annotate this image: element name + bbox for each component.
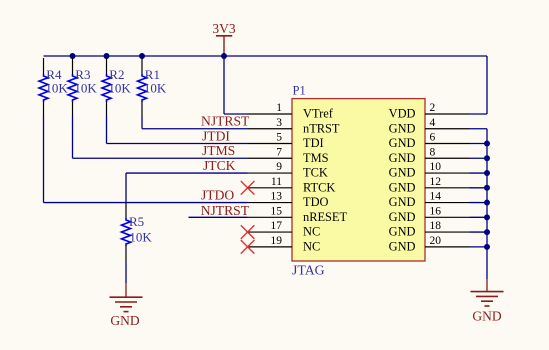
- wire pin4 to GND bus: [470, 128, 488, 130]
- pin 14 (GND): [389, 191, 470, 210]
- comment JTAG: [292, 262, 325, 277]
- svg-text:10K: 10K: [108, 81, 131, 96]
- wire NJTRST stub (pin15): [189, 216, 248, 218]
- resistor R3: [68, 58, 97, 116]
- pin 12 (GND): [389, 176, 470, 195]
- svg-text:nTRST: nTRST: [303, 121, 340, 135]
- wire pin18 to GND bus: [470, 231, 488, 233]
- svg-text:6: 6: [430, 132, 436, 144]
- svg-text:18: 18: [430, 220, 442, 232]
- wire pin6 to GND bus: [470, 143, 488, 145]
- svg-text:20: 20: [430, 235, 442, 247]
- node 3V3-rail junction: [221, 53, 227, 59]
- resistor R5: [122, 204, 153, 262]
- node GND bus pin14: [484, 200, 490, 206]
- svg-text:nRESET: nRESET: [303, 210, 347, 224]
- pin 7 (TMS): [248, 146, 329, 165]
- svg-text:10K: 10K: [129, 229, 152, 244]
- svg-text:JTCK: JTCK: [203, 158, 236, 173]
- svg-text:15: 15: [271, 205, 283, 217]
- svg-text:GND: GND: [389, 195, 416, 209]
- no-ERC marker pin 11: [241, 181, 255, 195]
- net label JTCK (pin9): [203, 158, 236, 173]
- pin 6 (GND): [389, 132, 470, 151]
- pin 19 (NC): [248, 235, 321, 254]
- pin 11 (RTCK): [248, 176, 336, 195]
- pin 4 (GND): [389, 117, 470, 136]
- net label JTMS (pin7): [202, 143, 235, 158]
- svg-text:10K: 10K: [74, 81, 97, 96]
- wire R2 net: [107, 116, 248, 144]
- node R1-rail junction: [139, 53, 145, 59]
- pin 10 (GND): [389, 161, 470, 180]
- svg-text:R5: R5: [129, 214, 144, 229]
- svg-text:19: 19: [271, 235, 283, 247]
- node GND bus pin8: [484, 155, 490, 161]
- svg-text:3V3: 3V3: [212, 21, 235, 36]
- svg-text:17: 17: [271, 220, 283, 232]
- svg-text:GND: GND: [389, 166, 416, 180]
- svg-text:16: 16: [430, 205, 442, 217]
- svg-text:9: 9: [276, 161, 282, 173]
- node R2-rail junction: [104, 53, 110, 59]
- svg-text:14: 14: [430, 191, 442, 203]
- pin 5 (TDI): [248, 132, 324, 151]
- pin 1 (VTref): [248, 102, 334, 121]
- wire pin20 to GND bus: [470, 246, 488, 248]
- node GND bus pin16: [484, 214, 490, 220]
- node GND bus pin10: [484, 170, 490, 176]
- svg-text:JTDO: JTDO: [201, 187, 234, 202]
- pin 13 (TDO): [248, 191, 329, 210]
- wire pin12 to GND bus: [470, 187, 488, 189]
- pin 20 (GND): [389, 235, 470, 254]
- svg-text:GND: GND: [389, 210, 416, 224]
- svg-text:TDO: TDO: [303, 195, 329, 209]
- wire R1 net: [142, 116, 248, 129]
- svg-text:JTAG: JTAG: [292, 262, 325, 277]
- node R3-rail junction: [70, 53, 76, 59]
- svg-text:2: 2: [430, 102, 436, 114]
- svg-text:GND: GND: [389, 180, 416, 194]
- svg-text:10: 10: [430, 161, 442, 173]
- svg-text:5: 5: [276, 132, 282, 144]
- svg-text:GND: GND: [389, 136, 416, 150]
- svg-text:13: 13: [271, 191, 283, 203]
- svg-text:JTMS: JTMS: [202, 143, 235, 158]
- svg-text:P1: P1: [293, 84, 306, 98]
- net label NJTRST (pin15): [201, 203, 250, 218]
- node GND bus pin20: [484, 244, 490, 250]
- svg-text:12: 12: [430, 176, 442, 188]
- pin 8 (GND): [389, 146, 470, 165]
- svg-text:NC: NC: [303, 239, 320, 253]
- connector P1 body: [292, 99, 425, 261]
- resistor R1: [138, 58, 167, 116]
- wire pin10 to GND bus: [470, 172, 488, 174]
- svg-text:8: 8: [430, 146, 436, 158]
- wire 3V3 to pin1: [224, 56, 248, 114]
- svg-text:7: 7: [276, 146, 282, 158]
- svg-text:NJTRST: NJTRST: [201, 203, 250, 218]
- wire 3V3 rail: [44, 55, 488, 57]
- pin 2 (VDD): [389, 102, 470, 121]
- net label NJTRST (pin3): [201, 114, 250, 129]
- pin 18 (GND): [389, 220, 470, 239]
- svg-text:GND: GND: [389, 239, 416, 253]
- svg-text:GND: GND: [389, 151, 416, 165]
- pin 9 (TCK): [248, 161, 328, 180]
- ground GND left: [110, 283, 143, 328]
- wire pin16 to GND bus: [470, 216, 488, 218]
- resistor R2: [102, 58, 131, 116]
- resistor R4: [39, 58, 68, 116]
- designator P1: [293, 84, 306, 98]
- wire R5 to ground: [125, 262, 127, 283]
- svg-text:VTref: VTref: [303, 107, 334, 121]
- no-ERC marker pin 19: [241, 240, 255, 254]
- node GND bus pin18: [484, 229, 490, 235]
- pin 17 (NC): [248, 220, 321, 239]
- wire pin8 to GND bus: [470, 157, 488, 159]
- svg-text:10K: 10K: [45, 81, 68, 96]
- svg-text:TDI: TDI: [303, 136, 324, 150]
- svg-text:3: 3: [276, 117, 282, 129]
- power port 3V3: [212, 21, 235, 56]
- pin 15 (nRESET): [248, 205, 348, 224]
- svg-text:1: 1: [276, 102, 282, 114]
- svg-text:10K: 10K: [144, 81, 167, 96]
- svg-text:JTDI: JTDI: [202, 128, 230, 143]
- node GND bus pin6: [484, 141, 490, 147]
- net label JTDI (pin5): [202, 128, 230, 143]
- svg-text:GND: GND: [472, 309, 501, 324]
- svg-text:TCK: TCK: [303, 166, 328, 180]
- svg-text:RTCK: RTCK: [303, 180, 335, 194]
- svg-text:NC: NC: [303, 225, 320, 239]
- svg-text:11: 11: [271, 176, 282, 188]
- svg-text:GND: GND: [389, 225, 416, 239]
- net label JTDO (pin13): [201, 187, 234, 202]
- svg-text:GND: GND: [389, 121, 416, 135]
- svg-text:GND: GND: [110, 313, 139, 328]
- wire R4 net: [44, 116, 248, 203]
- wire JTCK to R5: [126, 173, 248, 204]
- wire GND bus: [486, 129, 488, 279]
- ground GND right: [471, 279, 504, 324]
- pin 16 (GND): [389, 205, 470, 224]
- svg-text:VDD: VDD: [389, 107, 416, 121]
- svg-text:NJTRST: NJTRST: [201, 114, 250, 129]
- wire VDD pin2 to 3V3: [470, 56, 488, 114]
- wire pin14 to GND bus: [470, 202, 488, 204]
- node GND bus pin12: [484, 185, 490, 191]
- wire R3 net: [73, 116, 248, 158]
- pin 3 (nTRST): [248, 117, 340, 136]
- svg-text:TMS: TMS: [303, 151, 329, 165]
- no-ERC marker pin 17: [241, 225, 255, 239]
- svg-text:4: 4: [430, 117, 436, 129]
